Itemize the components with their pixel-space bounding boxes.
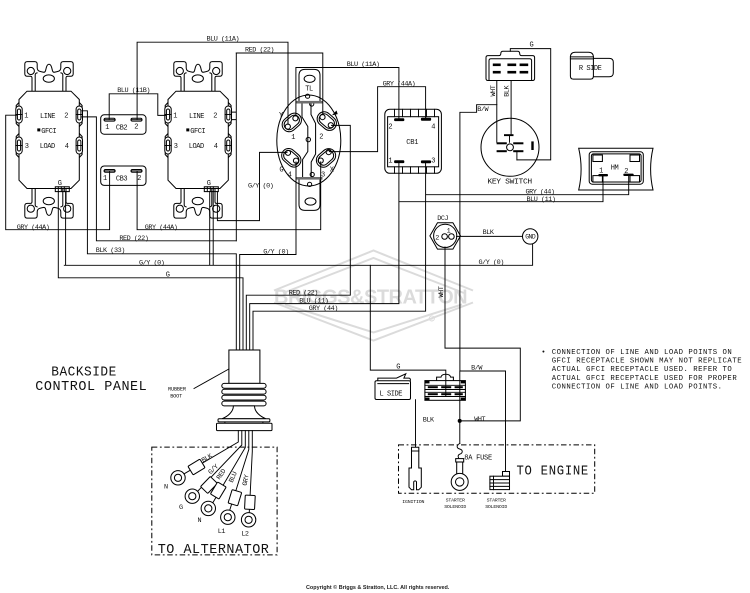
svg-text:CONNECTION OF LINE AND LOAD PO: CONNECTION OF LINE AND LOAD POINTS ON: [552, 349, 733, 357]
pin slot 3X: [313, 146, 338, 170]
wire BLU (11B) CB2 pin1 to GFCI#2 pin1: [109, 94, 166, 119]
svg-text:BLK: BLK: [423, 417, 435, 425]
strap bars: [296, 101, 323, 104]
svg-text:1: 1: [291, 134, 295, 142]
svg-text:B/W: B/W: [477, 106, 489, 114]
svg-text:RED (22): RED (22): [289, 289, 318, 297]
wire G/Y (0) main ground bus GFCI#1 G to GND: [64, 192, 532, 266]
svg-text:BLU (11A): BLU (11A): [207, 36, 240, 44]
svg-text:TO ENGINE: TO ENGINE: [517, 464, 590, 479]
svg-text:GRY (44): GRY (44): [309, 305, 338, 313]
starter solenoid ring terminal: [451, 459, 468, 491]
wire RED (22) top: GFCI#2 pin2 to TL pin W: [236, 53, 322, 115]
svg-text:BLK (33): BLK (33): [96, 247, 125, 255]
R SIDE connector: [570, 52, 613, 79]
svg-text:G/Y (0): G/Y (0): [139, 260, 164, 268]
hour meter HM: [579, 148, 653, 190]
ignition blade terminal: [409, 447, 421, 490]
ring terminal N (RED): [201, 482, 226, 516]
svg-text:L2: L2: [241, 531, 249, 539]
wire B/W key switch to starter solenoid connector: [460, 105, 506, 477]
DCJ connector: [430, 223, 461, 249]
svg-text:ACTUAL GFCI RECEPTACLE USED.: ACTUAL GFCI RECEPTACLE USED. REFER TO: [552, 366, 733, 374]
svg-text:G/Y (0): G/Y (0): [263, 248, 288, 256]
watermark Briggs & Stratton logo: [274, 251, 473, 341]
svg-text:WHT: WHT: [490, 85, 498, 96]
svg-text:IGNITION: IGNITION: [402, 499, 424, 505]
circuit breaker CB3: [101, 166, 146, 185]
svg-text:GRY (44A): GRY (44A): [17, 224, 50, 232]
svg-text:1: 1: [599, 168, 603, 176]
svg-text:CONNECTION OF LINE AND LOAD PO: CONNECTION OF LINE AND LOAD POINTS.: [552, 384, 723, 392]
pin slot W (2): [314, 109, 339, 133]
svg-text:1: 1: [103, 175, 107, 183]
wire BLK DCJ to GND: [457, 235, 523, 237]
svg-text:1: 1: [388, 157, 392, 165]
svg-text:RED (22): RED (22): [119, 235, 148, 243]
svg-text:L1: L1: [218, 528, 226, 536]
wire G/Y (0) TL pin4 to boot: [240, 162, 296, 350]
svg-text:RUBBER: RUBBER: [168, 387, 187, 393]
mounting strap: [299, 69, 320, 101]
fuse squiggle 8A FUSE: [457, 444, 462, 460]
svg-text:N: N: [164, 484, 168, 492]
note text: [541, 349, 742, 392]
GFCI receptacle #1 (left): [16, 62, 83, 219]
wire G/Y (0) TL pin G to GFCI#2 G: [217, 152, 287, 220]
svg-text:2: 2: [435, 234, 439, 242]
key switch connector pads: [493, 64, 528, 74]
wire GRY (44A) GFCI#1 pin1 to CB3 pin1: [6, 115, 110, 230]
svg-text:2: 2: [388, 123, 392, 131]
wire fuse block to 8A fuse to starter solenoid: [459, 460, 461, 463]
svg-text:N: N: [198, 517, 202, 525]
wire GRY (44) CB1 pin3 to HM pin2 and boot: [253, 163, 629, 350]
wire G L-SIDE ground from G/Y bus: [370, 265, 446, 396]
svg-text:G: G: [166, 272, 170, 280]
svg-text:R SIDE: R SIDE: [579, 65, 602, 73]
wires to alternator ring terminals: [184, 431, 239, 475]
svg-text:4: 4: [431, 123, 435, 131]
svg-text:STARTER: STARTER: [446, 498, 465, 504]
wire G bus GFCI#1 G to boot: [58, 192, 243, 350]
svg-text:2: 2: [319, 134, 323, 142]
svg-text:BLK: BLK: [503, 85, 511, 97]
TO ALTERNATOR dashed box: [152, 447, 277, 555]
svg-text:CONTROL PANEL: CONTROL PANEL: [35, 380, 147, 395]
wire BLK (33) GFCI#1 pin2 to boot: [82, 111, 236, 350]
twist-lock receptacle TL: [277, 69, 341, 210]
svg-text:ACTUAL GFCI RECEPTACLE USED FO: ACTUAL GFCI RECEPTACLE USED FOR PROPER: [552, 375, 738, 383]
wire riser GFCI#2 pin2/pin4 to RED (22) bus: [232, 53, 237, 241]
wire GRY (44A) CB3 pin2 to TL pin 3: [137, 162, 321, 230]
svg-text:3: 3: [321, 171, 325, 179]
wire BLK fuse block to ignition: [415, 400, 417, 448]
circuit breaker CB2: [101, 115, 146, 134]
svg-text:SOLENOID: SOLENOID: [485, 504, 507, 510]
wire RED (22) TL pin W to boot: [246, 125, 350, 350]
boot leader line: [194, 369, 229, 389]
svg-text:CB3: CB3: [116, 176, 128, 184]
svg-text:SOLENOID: SOLENOID: [444, 504, 466, 510]
oval face: [277, 95, 341, 186]
TO ENGINE dash-dot box: [399, 445, 595, 493]
svg-text:DCJ: DCJ: [437, 215, 448, 223]
svg-text:CB1: CB1: [406, 139, 418, 147]
svg-text:1: 1: [105, 124, 109, 132]
svg-text:TL: TL: [305, 86, 313, 94]
svg-text:TO ALTERNATOR: TO ALTERNATOR: [158, 542, 270, 558]
ring terminal L2 (GRY): [241, 495, 255, 527]
wire G key switch connector to switch body: [510, 49, 550, 160]
neck zigzag: [302, 104, 308, 178]
svg-text:BLU (11B): BLU (11B): [117, 87, 150, 95]
svg-text:G/Y (0): G/Y (0): [479, 259, 504, 267]
svg-text:BLU (11): BLU (11): [527, 196, 556, 204]
svg-text:WHT: WHT: [474, 416, 485, 424]
svg-text:KEY SWITCH: KEY SWITCH: [487, 179, 532, 187]
svg-text:GND: GND: [525, 234, 536, 241]
svg-text:B/W: B/W: [471, 364, 483, 372]
svg-text:Copyright © Briggs & Stratton,: Copyright © Briggs & Stratton, LLC. All …: [306, 584, 450, 591]
GND symbol: [523, 229, 538, 244]
circuit breaker CB1: [385, 109, 442, 173]
rubber boot: [217, 350, 273, 431]
wire BLU (11A) TL pin Y to CB1 pin 2: [296, 68, 399, 119]
svg-text:3: 3: [431, 157, 435, 165]
wire RED (22) GFCI#1 pin2 to GFCI#2 riser: [82, 117, 236, 241]
wire GRY (44A) TL pin X to CB1 pin 4: [330, 87, 426, 152]
svg-text:GRY (44A): GRY (44A): [145, 224, 178, 232]
svg-text:2: 2: [137, 175, 141, 183]
svg-text:BLU (11A): BLU (11A): [347, 61, 380, 69]
svg-text:G: G: [279, 166, 283, 174]
svg-text:4: 4: [288, 171, 292, 179]
svg-text:8A FUSE: 8A FUSE: [464, 454, 492, 462]
svg-text:CB2: CB2: [116, 125, 128, 133]
svg-text:•: •: [541, 349, 546, 357]
ring terminal N (BLK): [171, 459, 205, 485]
starter solenoid connector block: [490, 472, 510, 490]
ring terminal L1 (BLU): [221, 490, 242, 525]
svg-text:HM: HM: [611, 164, 619, 172]
CB1 terminal pads: [388, 118, 435, 166]
svg-text:L SIDE: L SIDE: [380, 390, 403, 398]
svg-text:GFCI RECEPTACLE SHOWN MAY NOT: GFCI RECEPTACLE SHOWN MAY NOT REPLICATE: [552, 358, 742, 366]
svg-text:STARTER: STARTER: [487, 498, 506, 504]
svg-text:BACKSIDE: BACKSIDE: [51, 365, 117, 380]
svg-text:G: G: [530, 42, 534, 50]
svg-text:BOOT: BOOT: [170, 394, 182, 400]
svg-text:2: 2: [624, 168, 628, 176]
key switch connector: [486, 51, 535, 80]
svg-text:G/Y (0): G/Y (0): [248, 183, 273, 191]
svg-text:GRY (44A): GRY (44A): [383, 80, 416, 88]
ring terminal G (G/Y): [185, 476, 217, 503]
svg-text:2: 2: [134, 123, 138, 131]
L SIDE connector: [375, 374, 411, 400]
pin slot G4: [279, 146, 304, 170]
GFCI receptacle #2 (right): [165, 62, 232, 219]
svg-text:G: G: [179, 504, 183, 512]
wire WHT DCJ to fuse junction: [445, 247, 520, 421]
wire BLU (11) CB1 pin1 to HM pin1 and boot: [250, 163, 603, 350]
wire BLK key switch connector: [510, 81, 512, 135]
svg-text:RED (22): RED (22): [245, 47, 274, 55]
svg-text:G: G: [396, 364, 400, 372]
wire WHT key switch connector: [496, 81, 498, 143]
key switch circle: [481, 118, 539, 176]
svg-text:BLK: BLK: [483, 229, 495, 237]
wire BLU (11A) CB2 pin2 to TL pin Y: [137, 42, 288, 124]
svg-text:WHT: WHT: [438, 286, 446, 297]
pin slot Y (1): [279, 110, 304, 134]
HM terminal pads: [598, 164, 633, 176]
engine harness fuse block: [425, 374, 466, 400]
key switch electrodes: [497, 134, 534, 160]
svg-text:1: 1: [447, 228, 451, 236]
junction dot WHT: [458, 419, 462, 423]
